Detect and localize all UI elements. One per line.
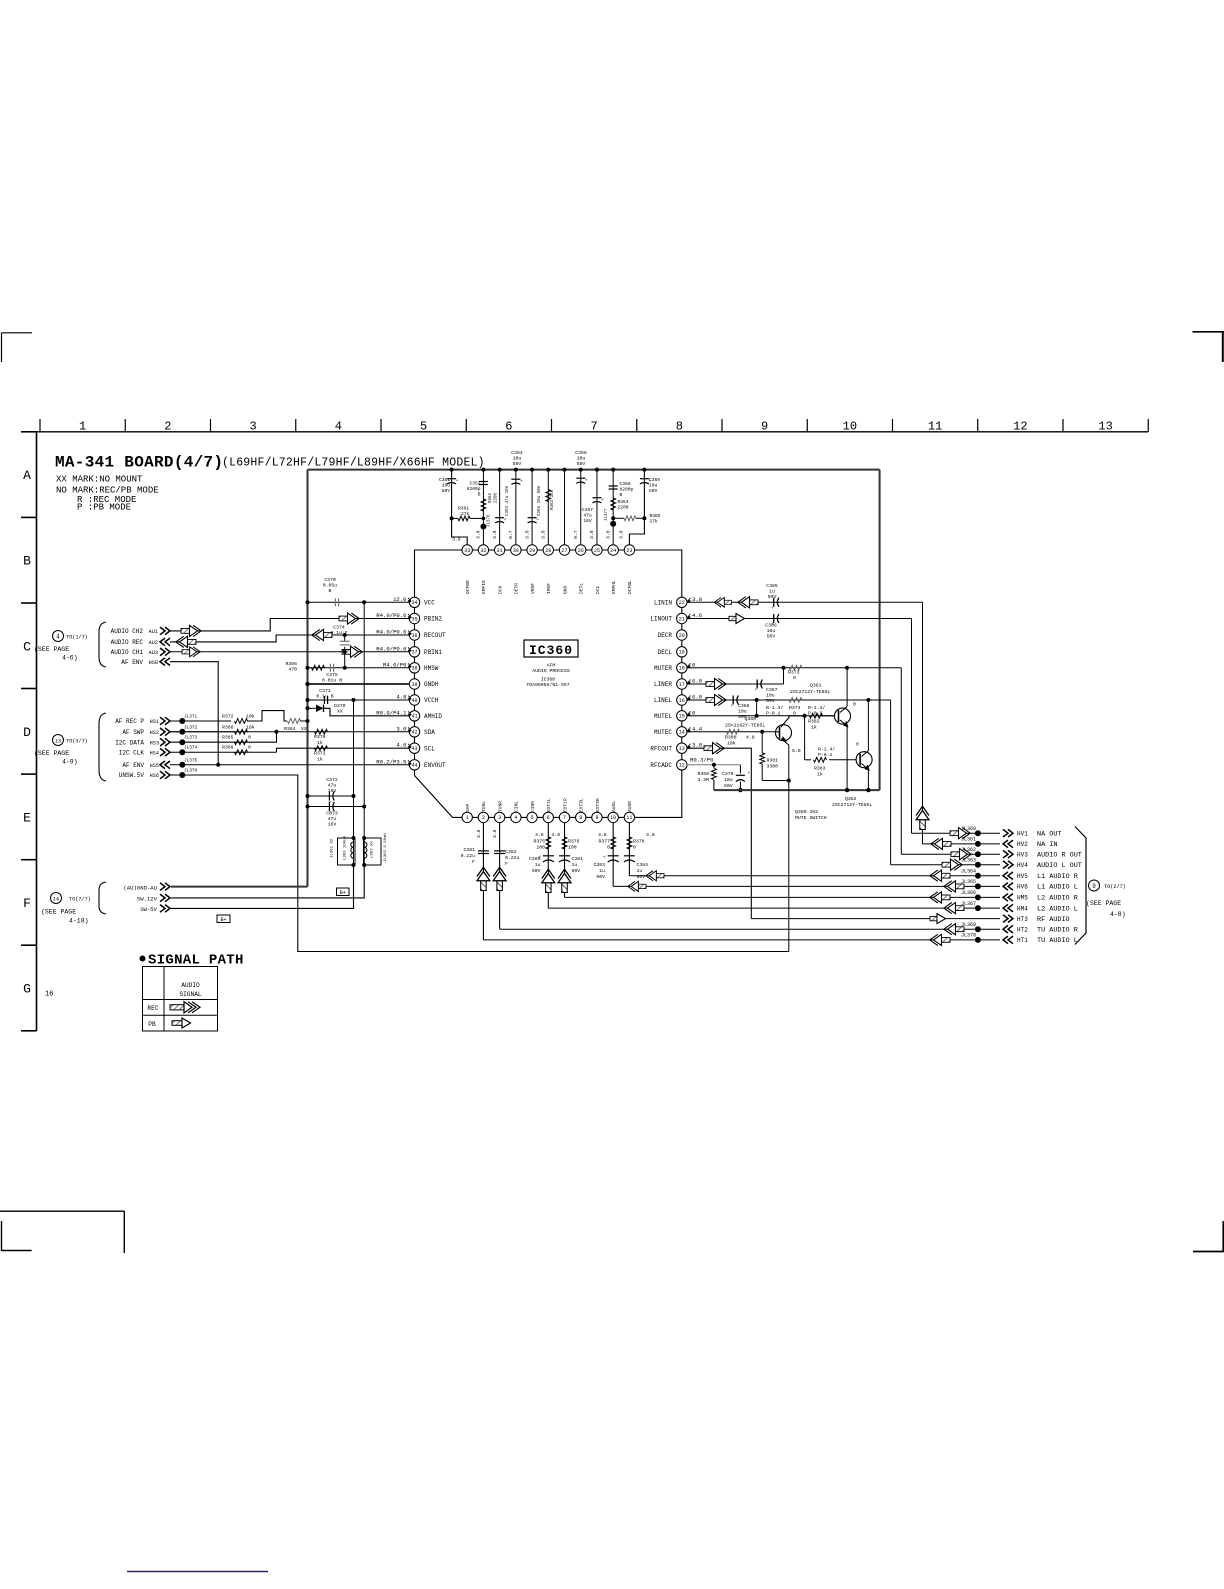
svg-text:EXT1L: EXT1L [546,798,552,812]
svg-text:HS1: HS1 [150,719,159,725]
svg-text:TDA9605H/N1-S57: TDA9605H/N1-S57 [526,682,569,688]
svg-text:C: C [23,639,31,654]
svg-text:R362: R362 [489,492,493,503]
pin 43 SCL [409,743,419,753]
svg-text:20: 20 [679,633,685,639]
svg-text:42: 42 [411,730,417,736]
pin 24 EMPHL [608,545,618,555]
capacitor C357 [592,497,601,499]
pin 7 EXT1R [559,812,569,822]
resistor R378 bottom [627,837,632,849]
svg-text:PBIN1: PBIN1 [424,649,442,656]
svg-text:50V: 50V [442,488,451,494]
svg-text:C380: C380 [529,856,541,862]
svg-text:R-1.4/: R-1.4/ [818,747,835,753]
svg-text:3.8: 3.8 [619,530,625,539]
wire LININ vertical [922,602,924,844]
wire pin 32 to bus [482,470,484,545]
svg-text:3.8: 3.8 [605,530,611,539]
pin 37 PBIN1 [409,647,419,657]
svg-text:10u: 10u [442,483,451,489]
label B+ box 1 [337,888,350,896]
wire HS3 row [170,732,277,742]
svg-text:HS5: HS5 [150,763,159,769]
brace group TO(1/7) [99,622,106,667]
svg-text:EMPIR: EMPIR [481,580,487,594]
svg-text:2SC2712Y-TE85L: 2SC2712Y-TE85L [832,802,872,808]
brace group TO(3/7) [99,713,106,781]
svg-text:HT3: HT3 [1017,916,1028,923]
wire HS6 UNSW.5V [170,775,789,952]
svg-text:10u: 10u [577,456,586,462]
svg-text:R-1.4/: R-1.4/ [808,705,825,711]
wire MUTER row [687,667,902,669]
wire HV4 row [891,864,1000,866]
svg-text:10: 10 [843,420,857,434]
svg-text:AU2: AU2 [149,640,158,646]
wire TUNR pin3 down [499,822,501,929]
capacitor C369 [640,478,649,480]
jumper JL365 [975,883,981,889]
svg-text:10u: 10u [766,693,775,699]
svg-text:R373: R373 [788,670,800,676]
svg-text:SAP: SAP [465,803,471,812]
svg-text:0.1u B: 0.1u B [316,694,333,700]
svg-text:C386: C386 [765,623,777,629]
svg-text:C365 10u 50V: C365 10u 50V [538,485,542,516]
jumper JL373 [179,739,185,745]
svg-text:(SEE PAGE: (SEE PAGE [41,909,76,916]
wire LININ row [687,601,923,603]
wire AF ENV HS8 vertical [170,662,218,765]
svg-text:+: + [601,498,604,503]
connector HV3 AUDIO R OUT [1003,850,1013,858]
svg-text:AUDIO CH1: AUDIO CH1 [111,649,144,656]
svg-text:R4.0/P0.6: R4.0/P0.6 [376,645,406,652]
signal arrow PB LININ b [738,597,758,608]
svg-text:0: 0 [248,745,251,751]
svg-text:16: 16 [45,991,53,999]
svg-text:L2 AUDIO R: L2 AUDIO R [1037,895,1078,903]
coil L360 box [338,838,356,865]
wire MUTEL to LINEL [756,700,758,716]
svg-text:30: 30 [513,548,519,554]
svg-text:3.8: 3.8 [646,832,655,838]
capacitor C387 [756,680,758,689]
connector HV5 L1 AUDIO R [1003,872,1013,880]
connector HT2 TU AUDIO R [1003,925,1013,933]
pin 38 HMSW [409,663,419,673]
wire HV3 row [901,853,1000,855]
svg-text:0: 0 [248,735,251,741]
svg-text:C370: C370 [324,577,336,583]
connector HM5 L2 AUDIO R [1003,894,1013,902]
svg-text:C385: C385 [766,583,778,589]
pin 42 SDA [409,727,419,737]
svg-text:R382: R382 [808,719,820,725]
svg-text:C364: C364 [511,450,523,456]
jumper JL369 [975,926,981,932]
svg-text:3.3M: 3.3M [697,777,709,783]
svg-text:JL362 0.50mH: JL362 0.50mH [384,833,388,862]
pin 27 GND [559,545,569,555]
svg-text:EXT2L: EXT2L [579,798,585,812]
svg-text:AUOL: AUOL [611,801,617,812]
pin 8 EXT2L [576,812,586,822]
svg-text:C388: C388 [738,703,750,709]
wire HS2 row [170,731,235,733]
svg-text:AMHID: AMHID [424,713,442,720]
pin 34 VCC [409,597,419,607]
svg-text:MUTE SWITCH: MUTE SWITCH [795,815,827,821]
wire Q380 collector vertical [788,745,790,952]
svg-text:4.8: 4.8 [396,694,406,701]
svg-text:0.01u B: 0.01u B [322,678,342,684]
jumper JL374 [179,749,185,755]
svg-text:18: 18 [679,666,685,672]
wire LINEL vertical [890,700,892,865]
transistor Q382 [867,700,869,751]
svg-text:0: 0 [853,702,856,708]
svg-text:+: + [748,771,751,776]
svg-text:47u: 47u [328,783,337,789]
svg-text:50V: 50V [532,868,541,874]
resistor R365 [613,517,624,519]
svg-text:16: 16 [679,698,685,704]
svg-text:C381: C381 [463,847,475,853]
signal arrow REC LINER [706,678,726,689]
svg-text:+: + [730,704,733,709]
svg-text:HM4: HM4 [1017,905,1028,912]
svg-text:7: 7 [563,815,566,821]
jumper JL375 [179,762,185,768]
signal arrow PB RECOUT [312,629,332,640]
svg-text:47u: 47u [328,816,337,822]
wire HV5 row [629,875,1000,877]
ref circled 13 [53,735,64,746]
svg-text:HV5: HV5 [1017,873,1028,880]
wire pin 31 to bus [499,470,501,545]
capacitor C381b bottom [559,855,570,857]
svg-text:C356: C356 [575,450,587,456]
svg-text:7: 7 [591,420,598,434]
svg-text:3.8: 3.8 [476,829,482,838]
svg-text:R365: R365 [650,513,661,519]
jumper JL377 [610,521,616,527]
wire R383 row [804,716,806,760]
capacitor C381 bottom [478,850,489,852]
signal arrow REC HV1 [950,828,970,839]
svg-text:XX MARK:NO MOUNT: XX MARK:NO MOUNT [56,475,143,485]
svg-text:50V: 50V [513,461,522,467]
svg-text:R361: R361 [458,506,469,512]
signal arrow PB AU2 [176,636,196,647]
signal arrow REC HV3 [951,849,971,860]
svg-text:100: 100 [536,845,545,851]
svg-text:SW-5V: SW-5V [140,906,157,913]
svg-text:2SA1162Y-TE85L: 2SA1162Y-TE85L [725,723,765,729]
svg-text:R377: R377 [598,839,610,845]
wire AUOR pin11 down [628,822,630,875]
svg-text:RFCOUT: RFCOUT [650,745,672,752]
svg-text:HM5: HM5 [1017,895,1028,902]
signal arrow PB LINOUT [729,614,745,624]
svg-text:R375: R375 [533,839,545,845]
svg-text:F: F [23,896,31,911]
svg-text:LINER: LINER [654,681,672,688]
svg-text:C361: C361 [439,477,450,483]
svg-text:HMSW: HMSW [424,665,439,672]
resistor R374 [789,698,802,703]
svg-text:C371: C371 [319,688,331,694]
svg-text:R0.2/P3.5: R0.2/P3.5 [376,758,406,765]
svg-text:27k: 27k [461,511,470,517]
svg-text:(SEE PAGE: (SEE PAGE [34,750,69,757]
svg-text:C383: C383 [593,862,605,868]
capacitor C380 bottom [543,855,554,857]
wire pin 29 to bus [531,470,533,545]
svg-text:11: 11 [626,815,632,821]
svg-text:32: 32 [480,548,486,554]
capacitor C356 [576,477,585,479]
resistor R376 bottom [562,837,567,849]
pin 30 DETR [511,545,521,555]
svg-text:TU AUDIO L: TU AUDIO L [1037,937,1078,945]
svg-text:IREF: IREF [546,583,552,594]
svg-text:MUTEL: MUTEL [654,713,672,720]
pin 22 LININ [677,597,687,607]
svg-text:G: G [23,982,31,997]
svg-text:HS2: HS2 [150,730,159,736]
resistor R383 [814,757,827,762]
capacitor C371 [323,696,325,704]
svg-text:+: + [771,606,774,611]
IC360 label box [524,640,578,657]
signal arrow PB HV6 b [944,881,964,892]
svg-text:3300: 3300 [767,764,779,770]
pin 41 AMHID [409,711,419,721]
jumper JL367 [975,905,981,911]
pin 29 VREF [527,545,537,555]
svg-text:R381: R381 [767,758,779,764]
legend REC arrow [170,1002,200,1013]
signal arrow REC HV4 [942,859,962,870]
svg-text:3.8: 3.8 [476,530,482,539]
resistor R364 top [611,498,616,510]
svg-text:R376: R376 [568,839,580,845]
wire HT2 row [500,928,1000,930]
svg-text:NA OUT: NA OUT [1037,830,1061,838]
svg-text:41: 41 [411,714,417,720]
svg-text:19: 19 [679,650,685,656]
svg-text:JL378: JL378 [184,769,198,774]
connector HV4 AUDIO L OUT [1003,861,1013,869]
wire MUTER vertical [900,668,902,854]
svg-text:4: 4 [56,634,60,641]
svg-text:OCFBL: OCFBL [627,580,633,594]
svg-text:47u: 47u [583,513,592,519]
wire mute ground rail [714,789,880,791]
capacitor C382 bottom [494,850,505,852]
svg-text:39: 39 [411,682,417,688]
svg-text:TO(3/7): TO(3/7) [66,739,88,745]
svg-text:(SEE PAGE: (SEE PAGE [1086,900,1121,907]
wire MUTEL row [687,715,835,717]
svg-text:AF REC P: AF REC P [115,718,144,725]
svg-text:L2 AUDIO L: L2 AUDIO L [1037,905,1078,913]
svg-text:6: 6 [547,815,550,821]
svg-text:2SC2712Y-TE85L: 2SC2712Y-TE85L [790,689,830,695]
legend SIGNAL PATH [140,956,146,962]
svg-text:VREF: VREF [530,583,536,594]
svg-text:MUTER: MUTER [654,665,672,672]
wire HV1 row [912,832,1001,834]
svg-text:VCC: VCC [424,600,435,607]
svg-text:R386: R386 [222,745,234,751]
transistor Q380 [776,725,792,741]
svg-text:C372: C372 [326,777,338,783]
wire HM5 row [565,896,1000,898]
svg-text:0: 0 [793,675,796,681]
wire pin 24 to bus [612,470,614,545]
bracket TO(2/7) [1075,827,1086,945]
capacitor C352 [479,481,488,483]
signal arrow REC up EXT1L [542,869,555,892]
svg-text:HV4: HV4 [1017,862,1028,869]
svg-text:JL371: JL371 [184,715,198,720]
svg-text:EXT2R: EXT2R [595,798,601,812]
svg-text:ENVOUT: ENVOUT [424,762,446,769]
wire LINOUT vertical [911,619,913,834]
svg-text:6: 6 [505,420,512,434]
svg-text:11: 11 [928,420,942,434]
svg-text:HV3: HV3 [1017,851,1028,858]
svg-text:R364: R364 [618,499,629,505]
svg-text:0.7: 0.7 [573,530,579,539]
wire HS4 row [170,751,277,753]
wire pin 27 to bus [564,470,566,545]
svg-text:31: 31 [497,548,503,554]
svg-text:50V: 50V [577,461,586,467]
svg-text:27k: 27k [650,519,659,525]
svg-text:3.8: 3.8 [492,829,498,838]
svg-text:+: + [456,479,459,484]
wire SW-5V row [171,865,354,908]
jumper JL363 [975,862,981,868]
wire VCCH row [308,699,410,701]
pin 3 TUNR [494,812,504,822]
resistor R382 [810,713,823,718]
svg-text:3.8: 3.8 [598,832,607,838]
svg-text:HV2: HV2 [1017,841,1028,848]
svg-text:R371: R371 [314,751,326,757]
svg-text:33: 33 [464,548,470,554]
svg-text:B: B [329,588,332,594]
IC360 body outline [415,550,682,817]
capacitor C370 [334,598,336,606]
pin 39 GNDH [409,679,419,689]
svg-text:TU AUDIO R: TU AUDIO R [1037,926,1078,934]
svg-text:2200: 2200 [618,505,629,511]
svg-text:10u: 10u [767,628,776,634]
svg-text:15: 15 [679,714,685,720]
pin 5 CINR [527,812,537,822]
svg-text:9: 9 [595,815,598,821]
pin 14 MUTEC [677,727,687,737]
capacitor C365 [528,517,537,519]
signal arrow REC up EXT1R [558,869,571,892]
wire GND-AU row [171,886,308,888]
svg-text:3.8: 3.8 [452,537,461,543]
pin 6 EXT1L [543,812,553,822]
svg-text:10u: 10u [724,777,733,783]
svg-text:13: 13 [55,739,61,745]
svg-text:JL363: JL363 [961,858,976,864]
pin 40 VCCH [409,695,419,705]
svg-text:D: D [23,725,31,740]
svg-text:4-8): 4-8) [1110,911,1126,918]
svg-text:JL376: JL376 [488,514,492,527]
svg-text:R368: R368 [222,724,234,730]
svg-text:43: 43 [411,746,417,752]
resistor R385 [235,740,248,745]
svg-text:R380: R380 [725,735,737,741]
svg-text:B: B [620,492,623,498]
svg-text:JL373: JL373 [184,736,198,741]
pin 36 RECOUT [409,630,419,640]
wire C373 row [308,806,365,808]
capacitor C383 bottom [608,855,619,857]
svg-text:6.0: 6.0 [692,678,703,685]
signal arrow REC up TUNR [493,867,506,890]
svg-text:R372: R372 [222,714,234,720]
wire SW-5V vertical [353,700,355,838]
resistor R366 [312,665,325,670]
jumper JL370 [975,937,981,943]
svg-text:3.8: 3.8 [589,530,595,539]
pin 33 OCFBR [462,545,472,555]
svg-text:JL375: JL375 [184,758,198,763]
signal arrow REC LINEL [706,694,726,705]
svg-text:8: 8 [676,420,683,434]
svg-text:8: 8 [579,815,582,821]
svg-text:L1 AUDIO L: L1 AUDIO L [1037,884,1078,892]
svg-text:6.0: 6.0 [692,694,703,701]
capacitor C353 [495,517,504,519]
svg-text:LINEL: LINEL [654,697,672,704]
capacitor C372 [328,792,330,801]
svg-text:DECL: DECL [658,649,673,656]
resistor R375 bottom [546,837,551,849]
svg-text:JL377: JL377 [605,508,609,521]
wire SW.12V row [171,865,364,898]
svg-text:HS6: HS6 [150,773,159,779]
svg-text:C381: C381 [572,856,584,862]
signal arrow PB HM4 [944,903,964,914]
resistor R368 [235,729,248,734]
svg-text:TO(7/7): TO(7/7) [69,897,91,903]
svg-text:IC360: IC360 [529,643,573,658]
resistor R371 [315,746,328,751]
svg-text:16V: 16V [328,788,337,794]
svg-text:AFM: AFM [547,663,556,669]
wire HT1 row [483,939,1000,941]
svg-text:13: 13 [679,746,685,752]
svg-text:C369: C369 [649,477,660,483]
svg-text:14: 14 [53,897,59,903]
wire PBIN2 row from AU1 [170,619,410,631]
resistor R377 bottom [611,837,616,849]
